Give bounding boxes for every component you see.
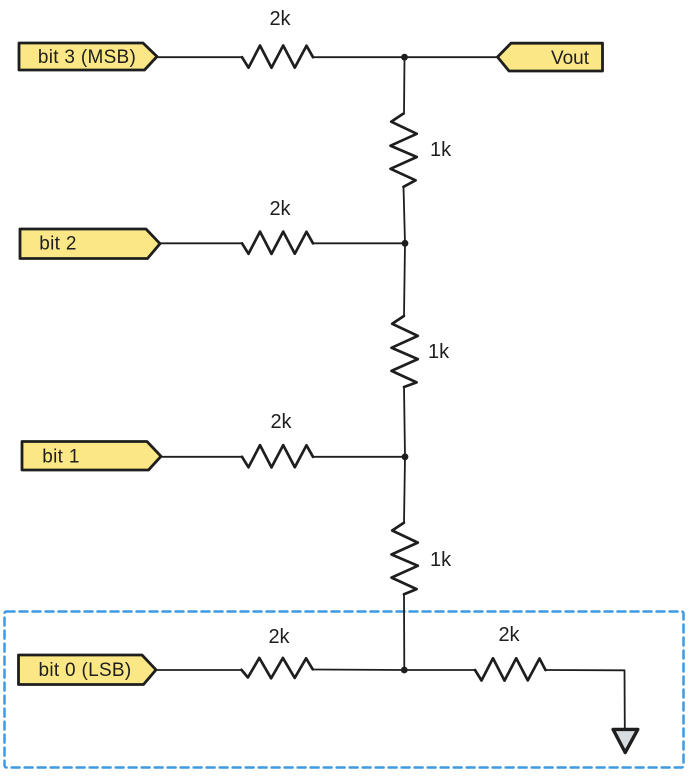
wire node D to terminating R (2k) xyxy=(404,669,475,671)
wire R 1k (top) to node B xyxy=(404,187,406,243)
resistor 2k (bit 1 branch) xyxy=(242,445,313,467)
svg-text:1k: 1k xyxy=(430,139,452,161)
value label 2k (bit 1 branch) xyxy=(270,411,292,433)
wire R 1k (middle) to node C xyxy=(404,387,405,457)
wire node A down to R 1k (top) xyxy=(403,57,406,114)
svg-text:2k: 2k xyxy=(498,624,520,646)
input flag bit 2 xyxy=(20,229,160,259)
resistor 2k (bit 0 branch) xyxy=(241,658,312,678)
value label 1k (middle rung) xyxy=(428,341,450,363)
input flag bit 1 xyxy=(22,442,161,471)
wire node B down to R 1k (middle) xyxy=(404,243,405,316)
ground xyxy=(613,729,638,752)
wire R (2k) to node B xyxy=(313,242,405,244)
wire bit3 flag to R (2k) xyxy=(157,56,242,58)
node B (bit 2 junction) xyxy=(402,240,409,247)
svg-text:2k: 2k xyxy=(269,198,291,220)
svg-text:bit 1: bit 1 xyxy=(42,447,79,468)
resistor 1k (middle rung) xyxy=(392,316,418,387)
wire bit1 flag to R (2k) xyxy=(161,456,242,458)
resistor 1k (bottom rung) xyxy=(392,523,418,595)
svg-text:1k: 1k xyxy=(430,549,452,571)
node D (bit 0 junction) xyxy=(401,667,408,674)
wire R (2k) to Vout flag through node A xyxy=(313,56,498,58)
resistor 2k (terminating) xyxy=(475,658,546,680)
input flag bit 3 (MSB) xyxy=(19,43,157,70)
resistor 2k (bit 3 branch) xyxy=(242,46,313,68)
svg-text:2k: 2k xyxy=(270,411,292,433)
node C (bit 1 junction) xyxy=(402,453,409,460)
resistor 2k (bit 2 branch) xyxy=(242,232,313,254)
wire R (2k) to node D xyxy=(313,669,405,672)
input flag bit 0 (LSB) xyxy=(19,655,157,685)
svg-text:2k: 2k xyxy=(269,8,291,30)
value label 1k (bottom rung) xyxy=(430,549,452,571)
svg-text:Vout: Vout xyxy=(551,48,590,69)
wire node C down to R 1k (bottom) xyxy=(404,457,405,523)
svg-text:1k: 1k xyxy=(428,341,450,363)
svg-text:bit 2: bit 2 xyxy=(39,234,76,255)
value label 2k (bit 3 branch) xyxy=(269,8,291,30)
value label 2k (bit 0 branch) xyxy=(268,626,290,648)
node A (Vout junction) xyxy=(401,54,408,61)
resistor 1k (top rung) xyxy=(391,114,417,187)
value label 2k (terminating) xyxy=(498,624,520,646)
wire terminating R to ground corner xyxy=(546,670,625,729)
svg-text:2k: 2k xyxy=(268,626,290,648)
svg-text:bit 3 (MSB): bit 3 (MSB) xyxy=(38,47,136,68)
output flag Vout xyxy=(498,43,603,71)
value label 2k (bit 2 branch) xyxy=(269,198,291,220)
wire bit0 flag to R (2k) xyxy=(156,669,242,671)
wire R 1k (bottom) to node D xyxy=(403,594,405,670)
value label 1k (top rung) xyxy=(430,139,452,161)
dashed group box (bit 0 LSB section) xyxy=(5,612,684,768)
wire R (2k) to node C xyxy=(313,456,405,458)
wire bit2 flag to R (2k) xyxy=(160,242,242,244)
svg-text:bit 0 (LSB): bit 0 (LSB) xyxy=(38,660,131,681)
